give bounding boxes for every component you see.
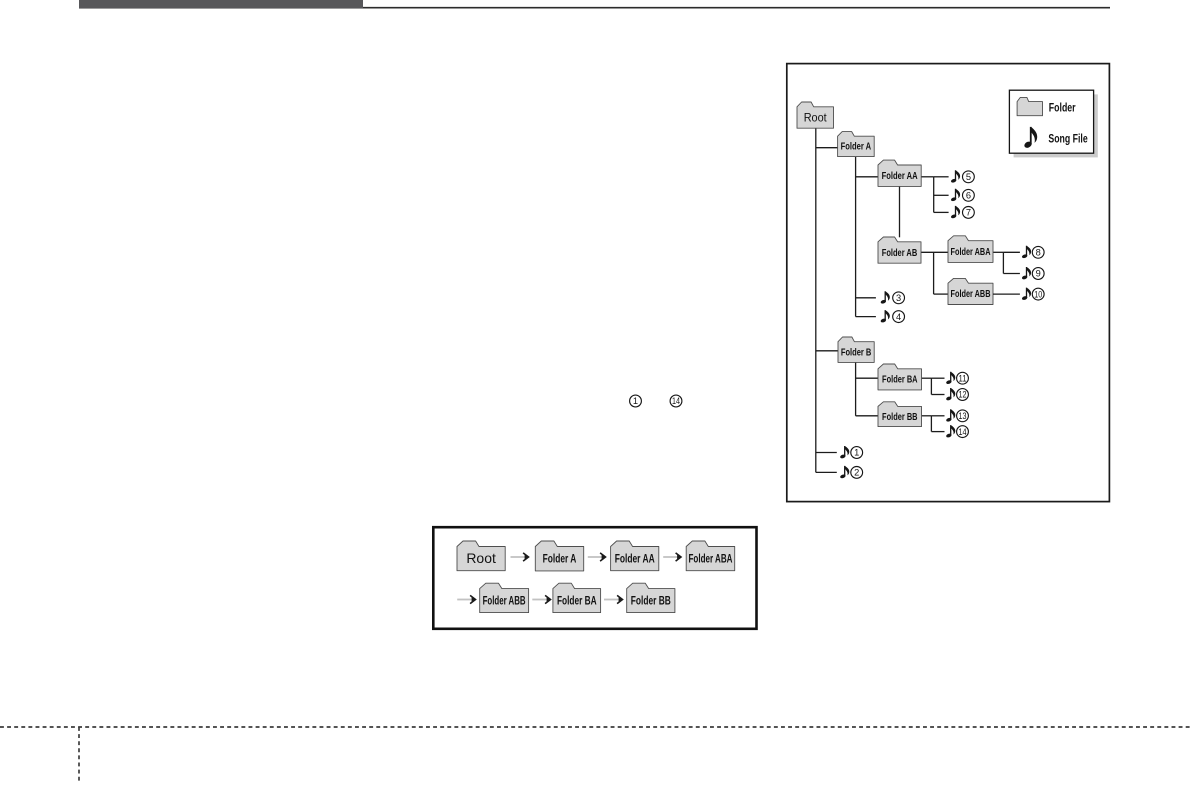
wire to Folder BB [856,415,878,417]
svg-text:Folder BB: Folder BB [631,595,671,607]
wire to song file 13 [931,415,944,417]
svg-text:Folder BA: Folder BA [882,375,918,386]
svg-text:Folder A: Folder A [841,142,872,153]
svg-text:6: 6 [966,191,971,201]
wire to song file 14 [931,431,944,433]
folder Folder B (tree) [838,337,874,362]
footer dashed rule [0,726,1190,728]
footer dashed divider [78,727,80,783]
wire junction 11-12 [930,378,932,394]
wire Folder A trunk [855,157,857,317]
folder Root (order) [457,541,505,571]
song file 5 [950,170,974,183]
svg-text:2: 2 [854,468,859,478]
play order frame [433,527,756,629]
svg-text:Song File: Song File [1048,134,1087,146]
wire Folder BB out [921,415,931,417]
svg-text:9: 9 [1036,269,1041,279]
svg-text:Folder ABB: Folder ABB [483,595,526,607]
folder Folder ABA (tree) [948,236,993,263]
song file 9 [1021,267,1044,280]
svg-text:Folder ABB: Folder ABB [951,289,991,300]
folder Folder BB (tree) [878,402,922,427]
folder Folder BA (tree) [878,364,922,390]
song file 4 [880,310,904,323]
svg-text:7: 7 [966,208,971,218]
svg-text:Root: Root [466,550,496,566]
svg-text:Folder A: Folder A [543,554,577,566]
svg-text:Root: Root [804,111,828,125]
folder Folder BB (order) [627,583,675,612]
arrow Folder AA to Folder ABA [663,553,681,561]
wire to song file 12 [931,394,944,396]
svg-text:12: 12 [959,390,967,400]
wire to song file 7 [934,211,949,213]
wire root to Folder B [816,350,838,352]
wire Folder ABA out [993,251,1003,253]
wire to Folder BA [856,377,878,379]
folder Folder AB (tree) [878,237,921,263]
folder Root (tree) [797,102,834,128]
svg-text:Folder AA: Folder AA [882,171,918,182]
wire to song file 10 [993,293,1020,295]
folder Folder ABA (order) [686,541,735,571]
folder Folder A (tree) [838,132,875,157]
wire Folder AA out [921,176,934,178]
song file 13 [946,409,969,422]
arrow Root to Folder A [511,553,529,561]
circled number 1 (body text) [630,395,642,407]
header bar [79,0,363,9]
svg-text:Folder BB: Folder BB [882,412,918,423]
arrow Folder BA to Folder BB [604,595,623,603]
arrow Folder ABB to Folder BA [532,595,550,603]
wire Folder B trunk [855,362,857,415]
svg-text:3: 3 [896,293,901,303]
folder Folder ABB (tree) [948,278,993,304]
wire to song file 5 [934,176,949,178]
folder Folder AA (order) [611,541,659,571]
wire Folder AA to Folder AB [899,187,901,238]
wire to song file 6 [934,194,949,196]
svg-text:14: 14 [959,427,967,437]
header rule [363,7,1110,9]
legend folder icon [1017,97,1042,115]
wire junction 8-9 [1002,252,1004,273]
svg-text:1: 1 [633,396,638,406]
svg-text:8: 8 [1036,248,1041,258]
circled number 14 (body text) [670,395,682,407]
folder Folder BA (order) [553,583,601,612]
wire to song file 9 [1003,273,1020,275]
folder Folder AA (tree) [878,160,921,186]
wire to song file 4 [856,316,876,318]
wire to Folder ABB [934,293,948,295]
svg-text:Folder ABA: Folder ABA [951,247,991,258]
svg-text:4: 4 [896,312,901,322]
arrow Folder A to Folder AA [588,553,606,561]
wire junction 5-7 [933,177,935,213]
song file 12 [946,388,969,401]
wire root to Folder A [816,147,838,149]
svg-text:Folder B: Folder B [841,347,872,358]
svg-text:11: 11 [959,373,967,383]
svg-text:Folder AA: Folder AA [615,553,655,565]
song file 1 [840,446,863,459]
wire to song file 1 [816,452,837,454]
song file 10 [1021,288,1044,301]
svg-text:Folder AB: Folder AB [882,248,918,259]
svg-text:10: 10 [1034,289,1042,299]
song file 7 [950,206,974,219]
tree diagram frame [787,64,1110,502]
svg-text:14: 14 [672,396,680,406]
svg-text:Folder BA: Folder BA [557,595,597,607]
wire Folder BA out [921,377,931,379]
wire to song file 11 [931,377,944,379]
svg-text:13: 13 [959,411,967,421]
svg-text:Folder: Folder [1049,103,1076,115]
folder Folder A (order) [535,541,583,571]
song file 14 [946,425,969,438]
song file 6 [950,189,974,202]
wire to song file 3 [856,297,876,299]
wire to Folder AA [856,176,878,178]
wire root trunk [815,128,817,472]
wire to song file 2 [816,471,837,473]
wire junction ABB [933,252,935,294]
song file 2 [840,466,863,479]
song file 11 [946,372,969,385]
arrow wrap to Folder ABB [457,595,475,603]
wire junction 13-14 [930,416,932,432]
song file 3 [880,291,904,304]
folder Folder ABB (order) [480,583,529,612]
svg-text:1: 1 [854,448,859,458]
legend box [1009,90,1093,153]
svg-text:5: 5 [966,172,971,182]
song file 8 [1021,246,1044,259]
legend note icon [1024,127,1038,149]
legend shadow [1014,94,1098,157]
wire to song file 8 [1003,251,1020,253]
wire Folder AB to Folder ABA [921,251,948,253]
svg-text:Folder ABA: Folder ABA [689,553,733,565]
